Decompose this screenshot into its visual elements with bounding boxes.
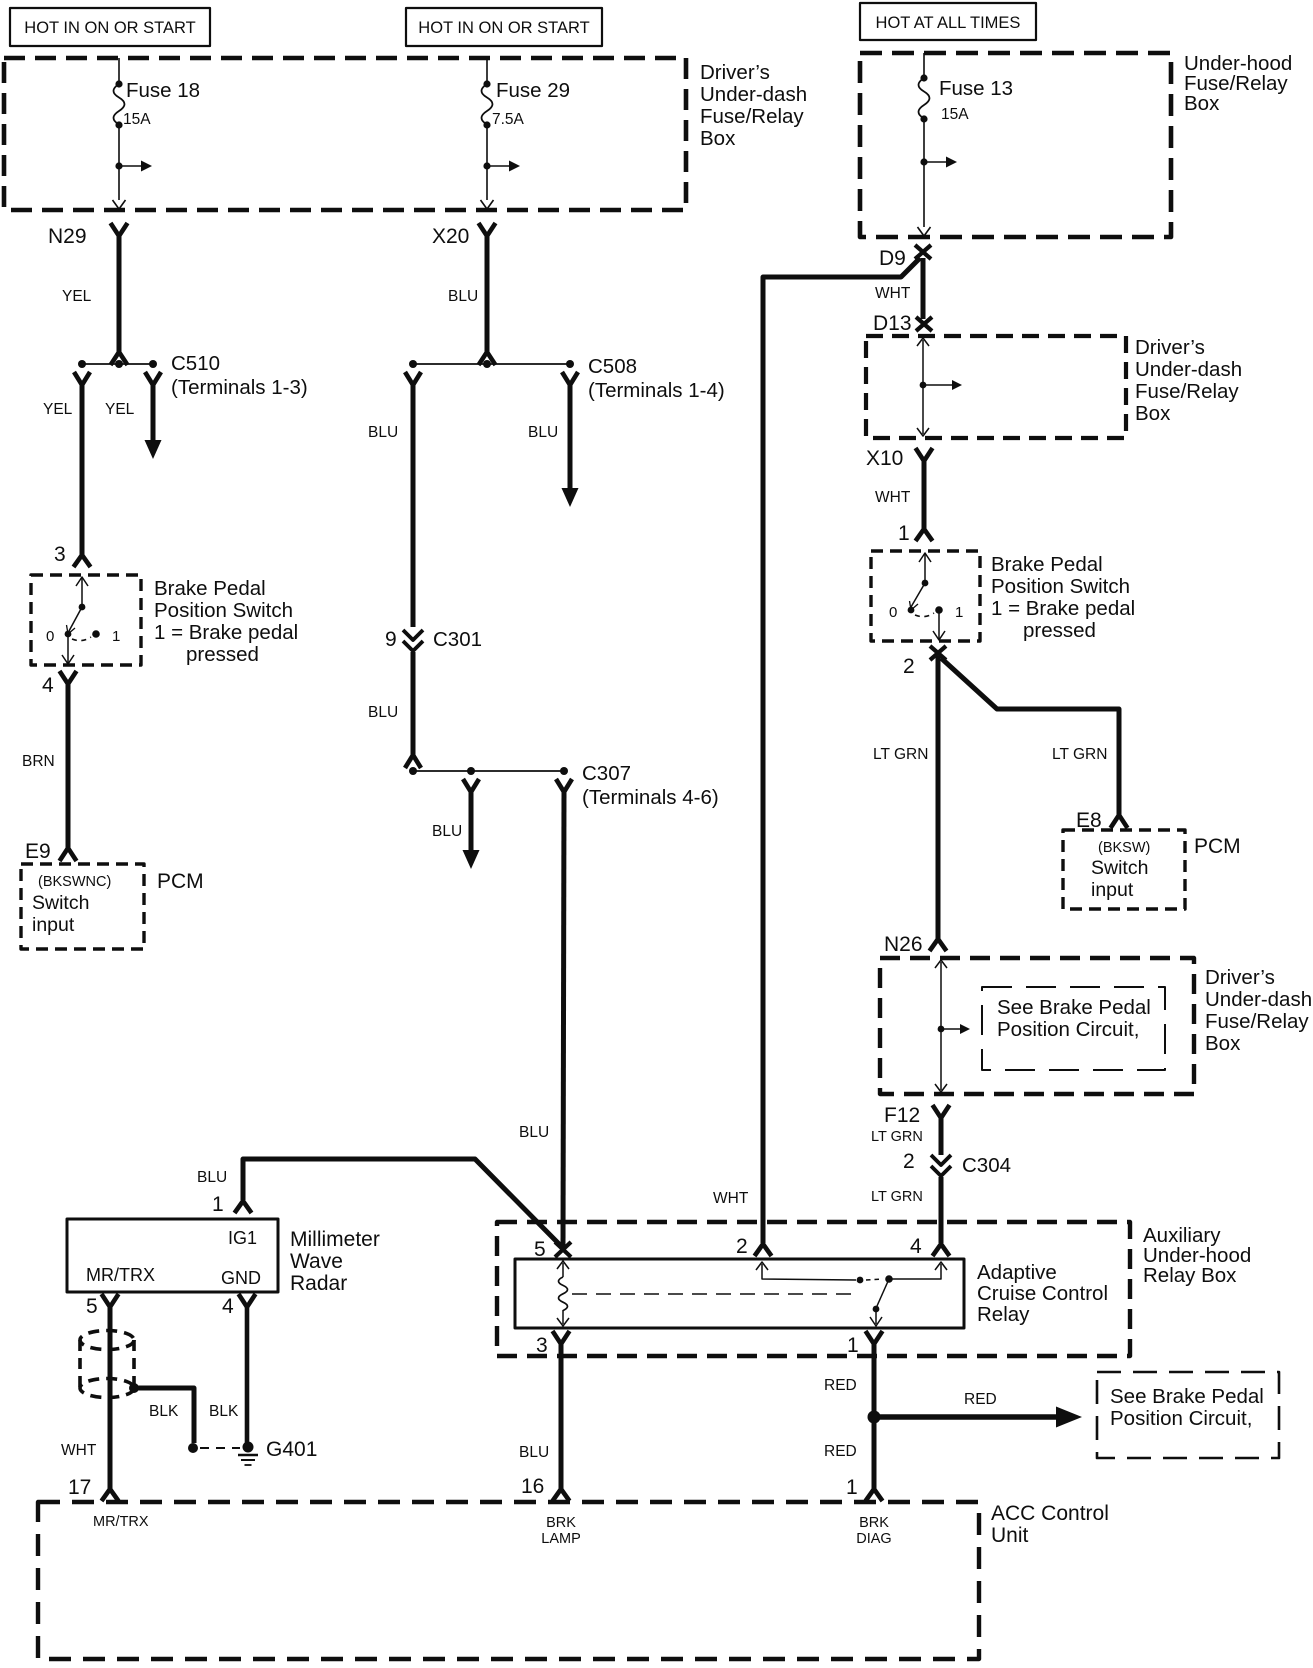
relay internal dashed link: [572, 1293, 856, 1295]
box See Brake Pedal Position Circuit (right): [1097, 1372, 1279, 1458]
arrow page-ref (BLU down, C307): [463, 850, 480, 869]
wire BLU (X20 to C508): [485, 235, 490, 353]
svg-text:1: 1: [898, 522, 910, 545]
box Auxiliary Under-hood Relay Box: [497, 1222, 1251, 1356]
svg-text:X10: X10: [866, 447, 903, 470]
svg-text:BRN: BRN: [22, 753, 55, 770]
svg-text:17: 17: [68, 1476, 91, 1499]
shield (cable screen around WHT wire): [80, 1331, 134, 1398]
svg-text:5: 5: [86, 1295, 98, 1318]
svg-text:1: 1: [212, 1193, 224, 1216]
svg-text:IG1: IG1: [228, 1228, 257, 1248]
svg-text:YEL: YEL: [105, 401, 135, 418]
svg-text:1 = Brake pedal: 1 = Brake pedal: [991, 597, 1135, 620]
svg-text:Box: Box: [1205, 1032, 1241, 1055]
svg-text:GND: GND: [221, 1268, 261, 1288]
wire RED (relay pin 1 to ACC pin 1): [872, 1343, 877, 1489]
box PCM (BKSW switch input): [1063, 830, 1241, 909]
wire YEL (C510 to brake switch pin 3): [80, 384, 85, 556]
svg-text:4: 4: [222, 1295, 234, 1318]
svg-text:BLK: BLK: [209, 1403, 239, 1420]
junction + branch arrow (Fuse 18): [115, 161, 152, 172]
svg-text:BRK: BRK: [546, 1515, 576, 1531]
wire WHT (radar MR/TRX to ACC pin 17): [108, 1306, 113, 1489]
arrow at box edge (Fuse 13 output): [918, 227, 931, 236]
connector fork (F12): [933, 1105, 950, 1118]
svg-text:Brake Pedal: Brake Pedal: [991, 553, 1103, 576]
svg-text:3: 3: [536, 1334, 548, 1357]
svg-text:(BKSWNC): (BKSWNC): [38, 874, 111, 890]
svg-text:YEL: YEL: [62, 288, 92, 305]
connector X (D9): [915, 245, 931, 259]
svg-text:Fuse 18: Fuse 18: [126, 79, 200, 102]
junction + branch arrow (Fuse 29): [483, 161, 520, 172]
node HOT AT ALL TIMES: [860, 3, 1036, 40]
svg-text:0: 0: [889, 604, 897, 621]
svg-text:1: 1: [846, 1476, 858, 1499]
wire BLU (C307 page-ref arrow): [469, 791, 474, 851]
wire BRN (switch to PCM E9): [66, 683, 71, 849]
svg-text:(BKSW): (BKSW): [1098, 840, 1150, 856]
connector fork (pin 1): [916, 529, 933, 541]
svg-text:Position Switch: Position Switch: [154, 599, 293, 622]
svg-text:9: 9: [385, 628, 397, 651]
connector fork (pin 4): [60, 671, 77, 684]
arrow at box edge (Fuse 18 output): [113, 200, 126, 209]
svg-text:BRK: BRK: [859, 1515, 889, 1531]
svg-text:PCM: PCM: [157, 870, 204, 893]
fuse Fuse 13 15A: [919, 53, 1014, 227]
svg-text:C510: C510: [171, 352, 220, 375]
connector X (pin 2): [930, 646, 946, 660]
wire WHT (X10 to switch pin 1): [922, 460, 927, 530]
svg-text:Relay Box: Relay Box: [1143, 1264, 1237, 1287]
svg-text:ACC Control: ACC Control: [991, 1502, 1109, 1525]
svg-text:BLU: BLU: [197, 1169, 227, 1186]
svg-text:Driver’s: Driver’s: [1135, 336, 1205, 359]
svg-text:Box: Box: [700, 127, 736, 150]
svg-text:BLK: BLK: [149, 1403, 179, 1420]
svg-text:WHT: WHT: [713, 1190, 749, 1207]
svg-text:Under-dash: Under-dash: [700, 83, 807, 106]
svg-text:MR/TRX: MR/TRX: [86, 1265, 155, 1285]
connector fork (C510 terminal 3 down-right): [145, 372, 161, 385]
svg-text:Fuse/Relay: Fuse/Relay: [700, 105, 804, 128]
svg-text:(Terminals 1-4): (Terminals 1-4): [588, 379, 725, 402]
connector X (relay pin 5): [555, 1242, 571, 1257]
svg-text:C508: C508: [588, 355, 637, 378]
connector fork (relay pin 4): [933, 1244, 950, 1256]
switch Brake Pedal Position Switch (left): [31, 575, 298, 666]
arrow at box edge (Fuse 29 output): [481, 200, 494, 209]
wire YEL (N29 to C510): [117, 235, 122, 353]
connector fork (wire end at C510): [111, 352, 128, 365]
svg-text:BLU: BLU: [368, 704, 398, 721]
svg-text:C301: C301: [433, 628, 482, 651]
connector fork (C508 left branch): [405, 372, 421, 385]
wire BLU (C307 to relay pin 5): [563, 791, 564, 1246]
svg-text:15A: 15A: [123, 111, 151, 128]
connector fork (N26): [930, 939, 947, 951]
svg-text:Fuse 13: Fuse 13: [939, 77, 1013, 100]
svg-text:HOT IN ON OR START: HOT IN ON OR START: [418, 19, 589, 37]
svg-text:Box: Box: [1135, 402, 1171, 425]
svg-text:3: 3: [54, 543, 66, 566]
wire WHT (D9 branch to relay pin 2): [763, 258, 920, 1243]
svg-text:pressed: pressed: [186, 643, 259, 666]
svg-text:Under-dash: Under-dash: [1135, 358, 1242, 381]
switch Brake Pedal Position Switch (right): [871, 551, 1135, 642]
splice link (dashed to G401): [200, 1447, 240, 1449]
connector fork (E8): [1111, 815, 1128, 828]
svg-text:WHT: WHT: [61, 1442, 97, 1459]
svg-text:RED: RED: [824, 1443, 857, 1460]
svg-text:G401: G401: [266, 1438, 317, 1461]
switch contact internals (right switch): [889, 553, 963, 640]
svg-text:D13: D13: [873, 312, 912, 335]
internal link (pass-through with branch arrow, lower right box): [935, 960, 970, 1092]
svg-text:Driver’s: Driver’s: [700, 61, 770, 84]
svg-text:PCM: PCM: [1194, 835, 1241, 858]
svg-text:N29: N29: [48, 225, 87, 248]
connector fork (E9): [60, 848, 77, 861]
connector fork (wire end at C508): [479, 352, 496, 365]
arrow page-ref (YEL down): [145, 440, 162, 459]
pin 2 / connector C304: [903, 1150, 1011, 1177]
svg-text:C304: C304: [962, 1154, 1011, 1177]
svg-text:DIAG: DIAG: [856, 1531, 891, 1547]
svg-text:Fuse/Relay: Fuse/Relay: [1135, 380, 1239, 403]
svg-text:YEL: YEL: [43, 401, 73, 418]
connector fork (pin 3): [74, 555, 91, 567]
wire BLK (shield drain to ground splice): [129, 1383, 198, 1453]
box ACC Control Unit: [38, 1502, 1109, 1659]
wire LT GRN (F12 to C304): [939, 1117, 944, 1155]
connector C508 junction: [409, 355, 725, 402]
svg-text:4: 4: [910, 1235, 922, 1258]
svg-text:Unit: Unit: [991, 1524, 1029, 1547]
connector fork N29: [111, 223, 128, 236]
wire LT GRN (branch to PCM E8): [941, 658, 1119, 816]
svg-text:15A: 15A: [941, 106, 969, 123]
wire YEL (C510 page-ref arrow): [151, 384, 156, 441]
svg-text:Relay: Relay: [977, 1303, 1030, 1326]
svg-text:5: 5: [534, 1238, 546, 1261]
svg-text:pressed: pressed: [1023, 619, 1096, 642]
node HOT IN ON OR START (middle): [406, 8, 602, 46]
connector fork (ACC pin 1): [866, 1489, 883, 1501]
svg-text:BLU: BLU: [368, 424, 398, 441]
svg-text:BLU: BLU: [528, 424, 558, 441]
connector fork (X10): [916, 448, 933, 461]
box Driver's Under-dash Fuse/Relay Box (top): [4, 58, 807, 210]
box Millimeter Wave Radar: [67, 1219, 380, 1295]
box Driver's Under-dash Fuse/Relay Box (right middle): [866, 336, 1242, 438]
svg-text:Position Circuit,: Position Circuit,: [997, 1018, 1139, 1041]
svg-text:X20: X20: [432, 225, 469, 248]
svg-text:HOT AT ALL TIMES: HOT AT ALL TIMES: [876, 14, 1021, 32]
junction dot (RED branch): [868, 1411, 881, 1424]
wire BLK (radar GND to G401): [245, 1306, 250, 1443]
svg-text:Millimeter: Millimeter: [290, 1228, 380, 1251]
svg-text:BLU: BLU: [519, 1124, 549, 1141]
svg-text:1 = Brake pedal: 1 = Brake pedal: [154, 621, 298, 644]
svg-text:LT GRN: LT GRN: [871, 1189, 923, 1205]
switch contact internals (left switch): [46, 577, 120, 664]
svg-text:2: 2: [903, 1150, 915, 1173]
svg-text:Position Circuit,: Position Circuit,: [1110, 1407, 1252, 1430]
connector fork (C508 right branch): [562, 372, 578, 385]
connector C307 junction: [409, 762, 719, 809]
svg-text:Driver’s: Driver’s: [1205, 966, 1275, 989]
svg-text:LT GRN: LT GRN: [871, 1129, 923, 1145]
svg-text:Position Switch: Position Switch: [991, 575, 1130, 598]
svg-text:RED: RED: [824, 1377, 857, 1394]
connector fork (radar pin 4): [239, 1294, 256, 1307]
svg-text:LT GRN: LT GRN: [873, 746, 928, 763]
relay coil: [557, 1261, 569, 1326]
node HOT IN ON OR START (left): [10, 8, 210, 46]
box PCM (BKSWNC switch input): [21, 864, 204, 949]
connector fork (relay pin 1): [866, 1331, 883, 1344]
connector fork (relay pin 2): [755, 1244, 772, 1256]
connector fork (C307 right branch): [556, 779, 572, 792]
svg-text:WHT: WHT: [875, 285, 911, 302]
box See Brake Pedal Position Circuit (inner): [982, 987, 1165, 1070]
svg-text:Radar: Radar: [290, 1272, 347, 1295]
svg-text:Under-dash: Under-dash: [1205, 988, 1312, 1011]
connector C510 junction: [78, 352, 308, 399]
svg-text:BLU: BLU: [448, 288, 478, 305]
wire BLU (C301 to C307): [411, 652, 416, 756]
svg-text:Adaptive: Adaptive: [977, 1261, 1057, 1284]
pin 9 / connector C301: [385, 628, 482, 651]
svg-text:(Terminals 4-6): (Terminals 4-6): [582, 786, 719, 809]
connector fork (C510 terminal 1 down-left): [74, 372, 90, 385]
svg-text:Brake Pedal: Brake Pedal: [154, 577, 266, 600]
arrow page-ref (BLU down): [562, 488, 579, 507]
svg-text:Wave: Wave: [290, 1250, 343, 1273]
svg-text:0: 0: [46, 628, 54, 645]
svg-text:(Terminals 1-3): (Terminals 1-3): [171, 376, 308, 399]
svg-text:LT GRN: LT GRN: [1052, 746, 1107, 763]
wire BLU (C508 to C301): [411, 384, 416, 627]
svg-text:1: 1: [847, 1334, 859, 1357]
svg-text:See Brake Pedal: See Brake Pedal: [1110, 1385, 1264, 1408]
svg-text:Fuse 29: Fuse 29: [496, 79, 570, 102]
wire LT GRN (switch to N26): [936, 656, 941, 940]
svg-text:BLU: BLU: [519, 1444, 549, 1461]
connector fork (wire end at C307): [405, 755, 421, 768]
svg-text:Switch: Switch: [1091, 857, 1148, 879]
fuse Fuse 29 7.5A: [482, 58, 571, 200]
svg-text:C307: C307: [582, 762, 631, 785]
wire BLU (C508 page-ref arrow): [568, 384, 573, 489]
svg-text:1: 1: [955, 604, 963, 621]
relay Adaptive Cruise Control Relay: [515, 1259, 1108, 1328]
svg-text:See Brake Pedal: See Brake Pedal: [997, 996, 1151, 1019]
svg-text:Fuse/Relay: Fuse/Relay: [1205, 1010, 1309, 1033]
svg-text:Cruise Control: Cruise Control: [977, 1282, 1108, 1305]
connector fork (relay pin 3): [553, 1331, 570, 1344]
svg-text:7.5A: 7.5A: [492, 111, 525, 128]
svg-text:Box: Box: [1184, 92, 1220, 115]
box Under-hood Fuse/Relay Box: [860, 52, 1292, 237]
connector fork (radar pin 1): [235, 1201, 252, 1213]
svg-text:4: 4: [42, 674, 54, 697]
svg-text:2: 2: [903, 655, 915, 678]
internal link (box pass-through with branch arrow): [917, 338, 962, 436]
svg-text:Switch: Switch: [32, 892, 89, 914]
svg-text:N26: N26: [884, 933, 923, 956]
svg-text:F12: F12: [884, 1104, 920, 1127]
wire WHT (D9 to D13): [921, 258, 926, 319]
connector fork X20: [479, 223, 496, 236]
svg-text:16: 16: [521, 1475, 544, 1498]
connector fork (ACC pin 17): [102, 1489, 119, 1501]
connector fork (radar pin 5): [102, 1294, 119, 1307]
svg-text:2: 2: [736, 1235, 748, 1258]
connector fork (ACC pin 16): [553, 1489, 570, 1501]
svg-text:HOT IN ON OR START: HOT IN ON OR START: [24, 19, 195, 37]
relay switch contacts: [756, 1262, 947, 1326]
junction + branch arrow (Fuse 13): [920, 157, 957, 168]
fuse Fuse 18 15A: [114, 58, 201, 200]
ground G401: [238, 1438, 317, 1465]
wire BLU (radar IG1 feed): [243, 1159, 563, 1248]
wire RED (page-ref arrow right): [874, 1391, 1082, 1428]
wire LT GRN (C304 to relay pin 4): [939, 1177, 944, 1243]
svg-text:WHT: WHT: [875, 489, 911, 506]
box Driver's Under-dash Fuse/Relay Box (lower right): [880, 958, 1312, 1094]
svg-text:E9: E9: [25, 840, 51, 863]
svg-text:MR/TRX: MR/TRX: [93, 1514, 149, 1530]
connector X (D13): [916, 317, 932, 331]
svg-text:RED: RED: [964, 1391, 997, 1408]
connector fork (C307 middle branch): [463, 779, 479, 792]
svg-text:BLU: BLU: [432, 823, 462, 840]
svg-text:1: 1: [112, 628, 120, 645]
svg-text:D9: D9: [879, 247, 906, 270]
svg-text:input: input: [1091, 879, 1134, 901]
svg-text:LAMP: LAMP: [541, 1531, 581, 1547]
svg-text:input: input: [32, 914, 75, 936]
wire BLU (relay pin 3 to ACC pin 16): [559, 1343, 564, 1489]
